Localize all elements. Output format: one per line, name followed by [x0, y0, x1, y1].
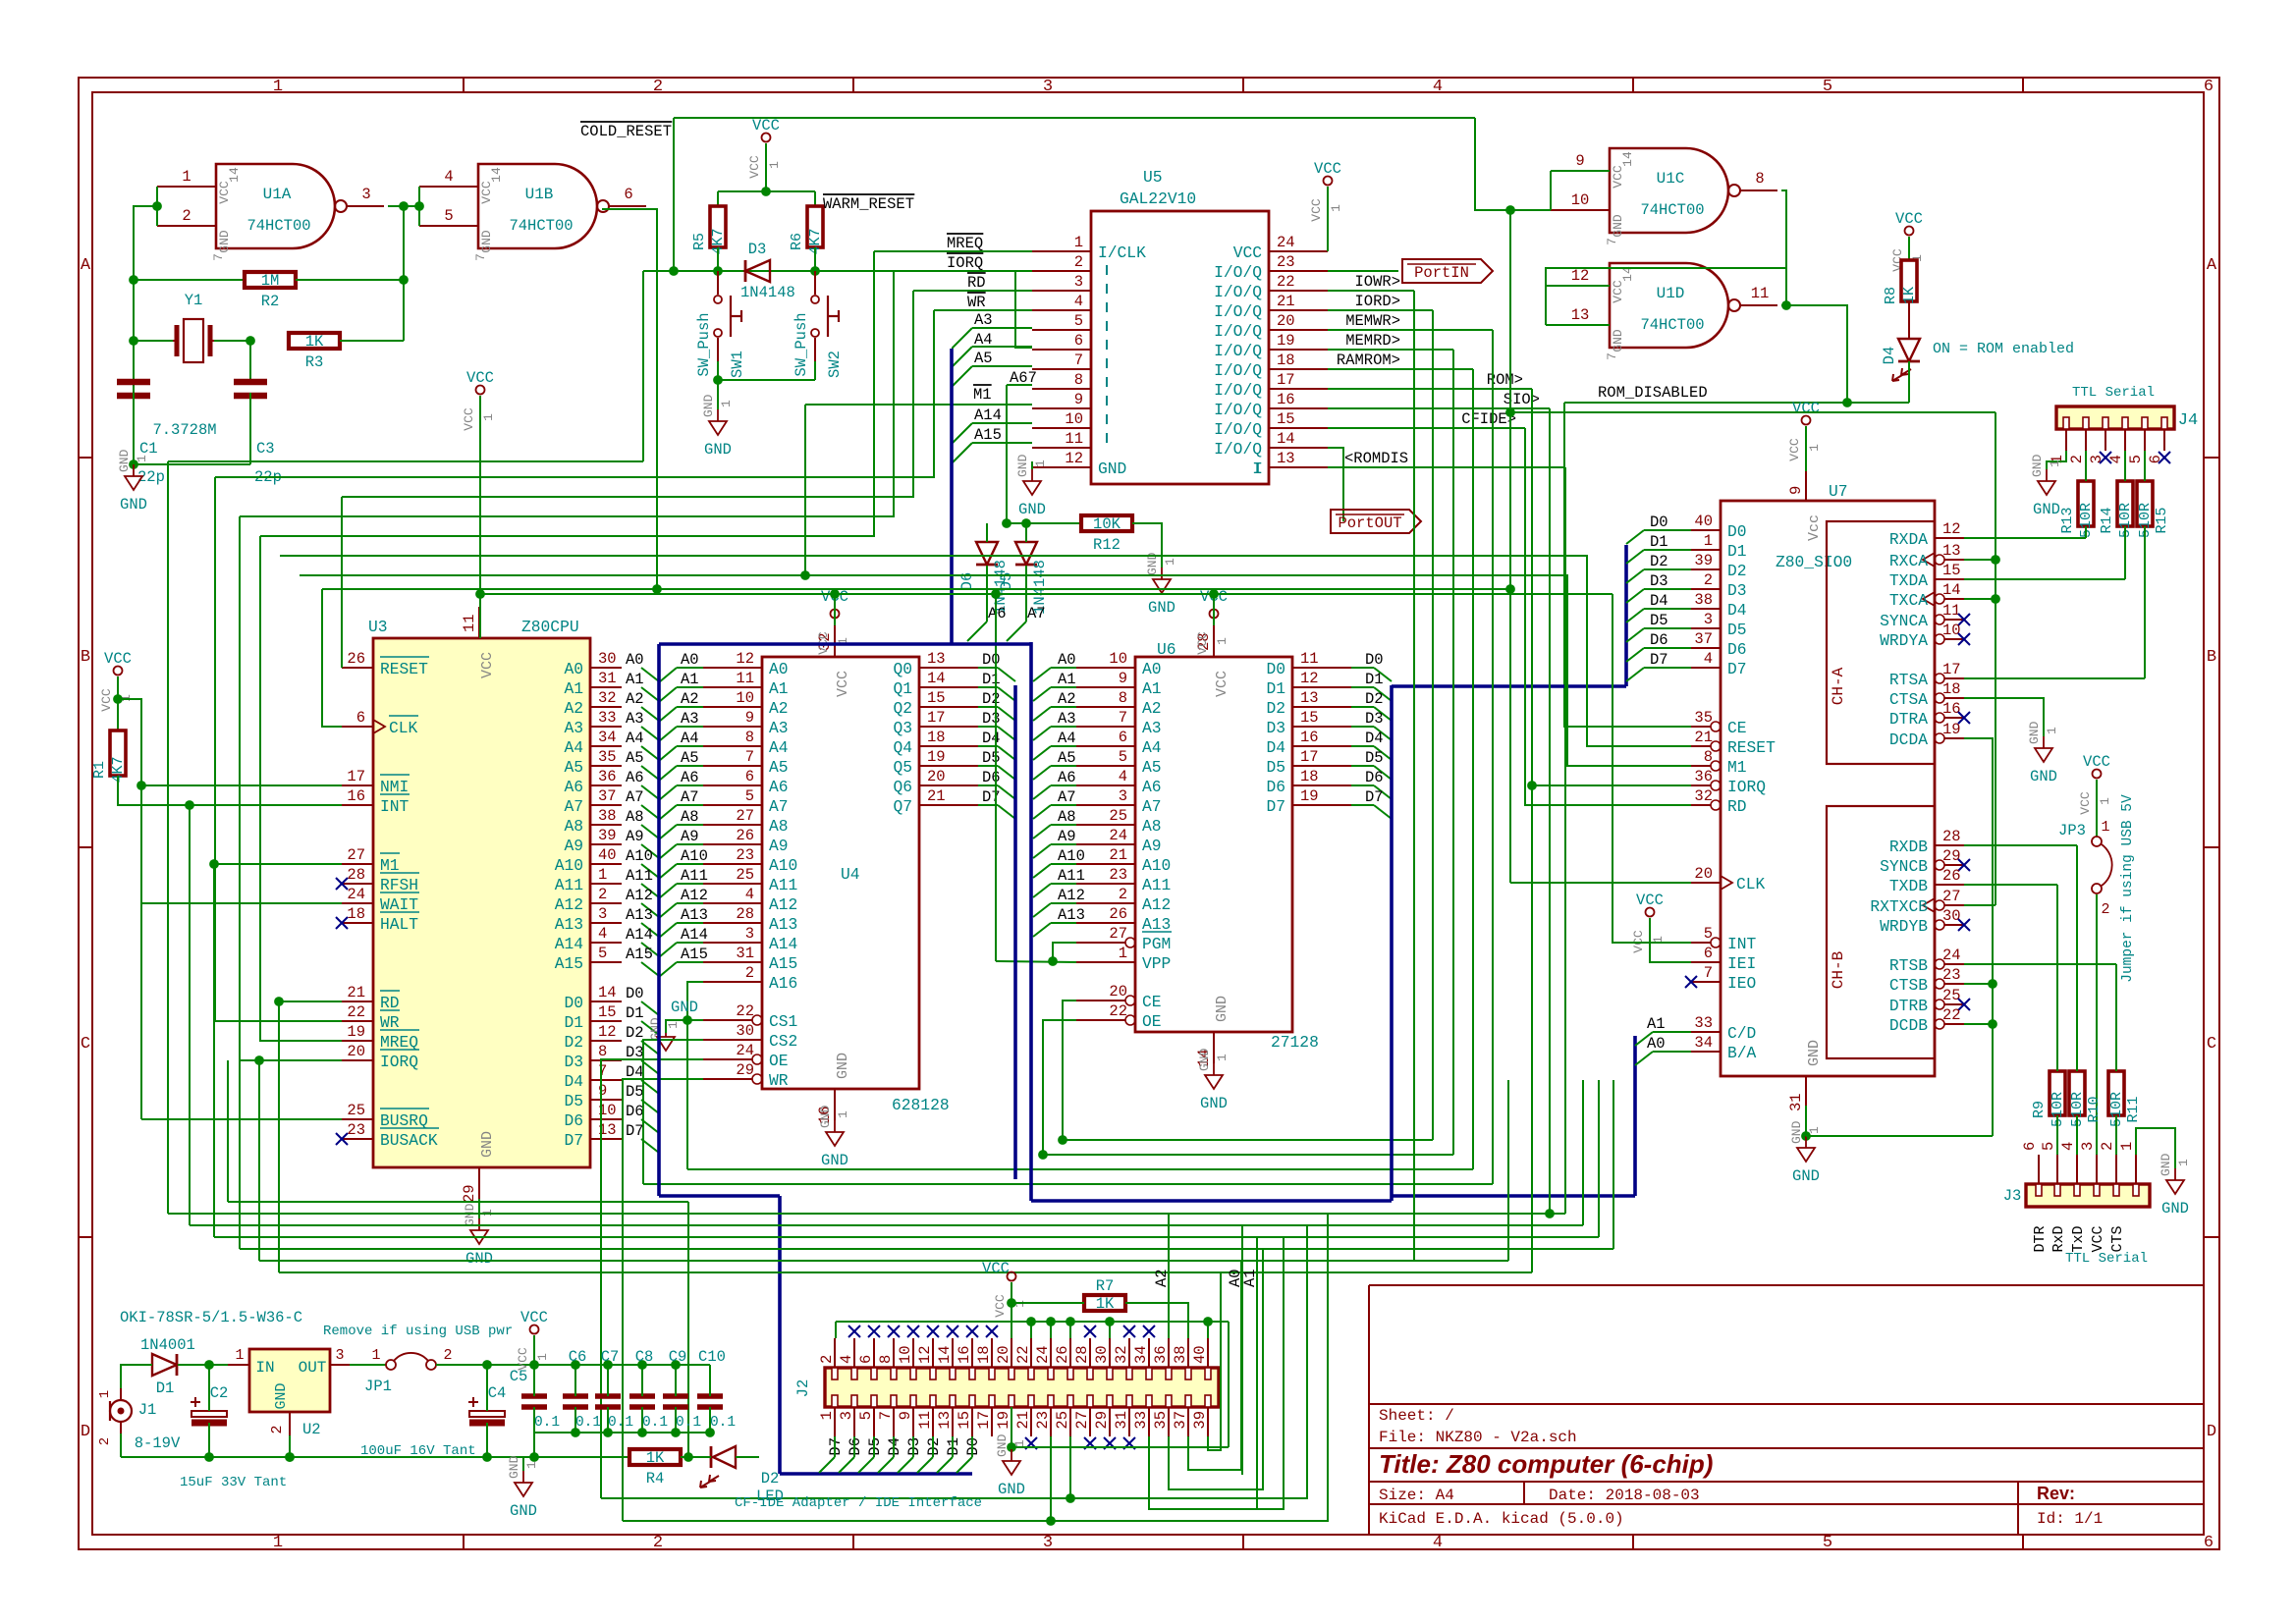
svg-text:U6: U6 [1157, 640, 1176, 659]
svg-text:D2: D2 [564, 1033, 583, 1052]
wire vcc rail reset [718, 190, 815, 192]
net label WARM_RESET [823, 194, 914, 213]
net label A6 at U6 [1058, 769, 1076, 786]
wire U6 CE [1063, 1001, 1076, 1140]
svg-text:A: A [81, 256, 91, 275]
svg-text:C10: C10 [698, 1348, 726, 1366]
net label A2 at U4 [681, 690, 699, 708]
bus entry D7 U6 [1374, 805, 1392, 819]
wire J2 data pin x930 [912, 1436, 914, 1457]
net label D0 at U7 [1650, 514, 1668, 531]
wire VPP [996, 961, 1076, 962]
svg-text:C5: C5 [510, 1368, 528, 1385]
svg-text:IN: IN [255, 1359, 274, 1377]
bus J2 horizontal [780, 1472, 972, 1476]
ground CTSA [2027, 721, 2059, 785]
junction [400, 276, 409, 285]
ground U5 [1015, 454, 1048, 518]
wire RTSA [1964, 677, 2145, 679]
svg-text:M1: M1 [380, 856, 400, 875]
svg-text:21: 21 [1277, 293, 1295, 310]
svg-text:JP1: JP1 [364, 1378, 392, 1395]
svg-text:Jumper if using USB 5V: Jumper if using USB 5V [2120, 794, 2136, 983]
svg-text:D2: D2 [761, 1470, 780, 1488]
global label MEMRD [1345, 332, 1400, 350]
net label A7 diode [1027, 605, 1046, 622]
bus entry A6 U6 [1033, 785, 1051, 799]
svg-text:3: 3 [1043, 78, 1053, 96]
svg-text:3: 3 [2079, 1142, 2097, 1151]
svg-text:6: 6 [857, 1355, 875, 1364]
bus entry A4 [953, 347, 972, 366]
net label D6 at U4 [982, 769, 1001, 786]
IC U6 27128 [1076, 625, 1351, 1067]
svg-text:VCC: VCC [217, 181, 232, 204]
net label A11 at U3 [626, 867, 653, 885]
svg-text:A11: A11 [626, 867, 653, 885]
wire SW2 bottom [814, 361, 816, 380]
net label A3 [974, 311, 993, 329]
svg-text:A7: A7 [681, 788, 699, 806]
bus entry A7 [1007, 622, 1026, 641]
svg-text:A7: A7 [1058, 788, 1076, 806]
wire COLD_RESET horizontal [674, 117, 1475, 119]
svg-text:R13: R13 [2059, 507, 2076, 533]
svg-text:J2: J2 [794, 1380, 812, 1398]
svg-text:R14: R14 [2099, 507, 2115, 533]
svg-text:A1: A1 [1058, 671, 1076, 688]
ground J4 [2030, 454, 2062, 518]
svg-text:3: 3 [361, 186, 370, 203]
wire J2 pin33 run [1149, 1237, 1284, 1509]
svg-text:A4: A4 [1142, 738, 1162, 757]
svg-text:A6: A6 [1058, 769, 1076, 786]
bus entry A15 U4 [659, 962, 677, 977]
bus entry A15 [953, 443, 972, 462]
junction [137, 782, 146, 790]
wire IORQ vertical [258, 1060, 260, 1261]
svg-text:7: 7 [1074, 352, 1083, 369]
svg-text:628128: 628128 [892, 1096, 950, 1114]
wire J2 data pin x890 [873, 1436, 875, 1457]
wire switch gnd rail [718, 379, 815, 381]
svg-text:34: 34 [1132, 1345, 1150, 1364]
wire J2 data pin x870 [853, 1436, 855, 1457]
junction [153, 202, 162, 211]
wire A4 stub [972, 346, 1032, 348]
wire reset rail down [642, 271, 644, 461]
svg-text:D7: D7 [1650, 651, 1668, 669]
svg-text:3: 3 [598, 905, 607, 923]
wire vcc stem reset [765, 143, 767, 191]
wire CS1 down [686, 1020, 688, 1169]
svg-text:A11: A11 [555, 876, 583, 894]
svg-text:25: 25 [736, 866, 754, 884]
wire RAMROM vertical [1472, 369, 1474, 1169]
net label A7 at U3 [626, 788, 644, 806]
svg-text:2: 2 [653, 78, 663, 96]
no-connect J2 top x1170 [1143, 1325, 1155, 1337]
wire bundle y1260 [214, 1236, 1599, 1238]
net label D6 at J2 [847, 1437, 864, 1456]
wire A10 U6 [1051, 863, 1076, 865]
svg-text:16: 16 [1277, 391, 1295, 408]
svg-text:1: 1 [719, 400, 734, 407]
bus entry A6 U4 [659, 785, 677, 800]
svg-text:A7: A7 [564, 797, 583, 816]
svg-text:GND: GND [117, 449, 132, 472]
svg-text:1: 1 [235, 1347, 244, 1364]
wire A1 vertical [1256, 1237, 1258, 1510]
svg-text:D3: D3 [1650, 572, 1668, 590]
svg-text:OUT: OUT [299, 1359, 327, 1377]
svg-text:IOWR>: IOWR> [1354, 273, 1400, 291]
net label D0 at J2 [964, 1437, 982, 1456]
svg-text:CF-IDE Adapter / IDE Interface: CF-IDE Adapter / IDE Interface [735, 1495, 982, 1511]
svg-text:Z80_SIO0: Z80_SIO0 [1776, 553, 1852, 571]
svg-text:D4: D4 [1266, 738, 1285, 757]
svg-text:I/O/Q: I/O/Q [1214, 420, 1262, 439]
svg-text:13: 13 [1571, 306, 1590, 324]
net label A8 at U6 [1058, 808, 1076, 826]
wire vcc power stem [533, 1335, 535, 1365]
wire IOWR [1328, 290, 1414, 292]
net label D7 at U3 [626, 1122, 644, 1140]
svg-text:1K: 1K [646, 1449, 665, 1467]
svg-text:VCC: VCC [1787, 438, 1802, 461]
capacitor C2 [191, 1384, 228, 1423]
global label RAMROM [1337, 352, 1400, 369]
svg-text:19: 19 [1942, 721, 1961, 738]
connector J3 [2021, 1142, 2150, 1207]
wire CS1 gnd [666, 1020, 687, 1033]
wire A11 U6 [1051, 883, 1076, 885]
svg-text:1: 1 [273, 78, 283, 96]
wire A67 stub [1007, 384, 1032, 386]
svg-text:1: 1 [1012, 1439, 1027, 1447]
svg-text:32: 32 [598, 689, 617, 707]
svg-text:1: 1 [1215, 1054, 1230, 1061]
svg-text:A13: A13 [626, 906, 653, 924]
svg-text:A1: A1 [1647, 1015, 1666, 1033]
net label D1 at U3 [626, 1004, 644, 1022]
svg-text:A11: A11 [681, 867, 708, 885]
svg-text:GND: GND [465, 1250, 493, 1268]
wire serial clock vertical long [1509, 210, 1511, 883]
junction [1843, 399, 1852, 407]
svg-text:39: 39 [1191, 1411, 1209, 1430]
svg-text:VCC: VCC [752, 117, 780, 135]
wire C2 top [208, 1365, 210, 1411]
wire RTSB to R11 [2115, 964, 2117, 1071]
wire U1A out to U1B [388, 205, 419, 207]
svg-text:1M: 1M [261, 272, 280, 290]
svg-text:GND: GND [835, 1053, 851, 1079]
svg-text:D3: D3 [1727, 581, 1747, 600]
VCC symbol U7 IEI [1631, 892, 1666, 953]
svg-text:5: 5 [1704, 925, 1713, 943]
net label A9 at U6 [1058, 828, 1076, 845]
svg-text:VCC: VCC [1895, 210, 1923, 228]
bus entry A15 U3 [641, 962, 659, 976]
VCC symbol power [516, 1309, 550, 1371]
wire INT vertical [189, 805, 191, 1225]
svg-text:D5: D5 [564, 1092, 583, 1110]
wire J2 data pin x970 [952, 1436, 954, 1457]
push button SW2 [793, 271, 844, 378]
bus entry A1 U3 [641, 687, 659, 701]
bus entry A3 U6 [1033, 727, 1051, 740]
svg-text:GND: GND [1098, 460, 1126, 478]
wire x244 down [239, 516, 241, 1249]
svg-text:GND: GND [1018, 501, 1046, 518]
svg-text:20: 20 [927, 768, 946, 785]
nand gate U1B [419, 164, 646, 261]
svg-text:3: 3 [1704, 611, 1713, 628]
bus entry A11 U4 [659, 884, 677, 898]
svg-text:GND: GND [1792, 1167, 1820, 1185]
svg-text:5: 5 [2127, 455, 2145, 463]
wire J2 top pin x1050 [1030, 1322, 1032, 1338]
svg-text:CLK: CLK [1736, 875, 1766, 893]
wire D0 U6 [1351, 667, 1374, 669]
bus entry D2 U4 [998, 707, 1015, 721]
wire vcc to R8 [1908, 237, 1910, 260]
svg-text:17: 17 [1277, 371, 1295, 389]
svg-text:C9: C9 [669, 1348, 687, 1366]
wire J2 pin23 run [1051, 1214, 1328, 1521]
bus entry A0 U7 [1635, 1052, 1653, 1065]
junction [1506, 206, 1515, 215]
svg-text:A6: A6 [564, 778, 583, 796]
svg-text:36: 36 [1152, 1345, 1170, 1364]
wire J2 pin19 [1011, 1407, 1012, 1447]
svg-text:GND: GND [1611, 214, 1625, 238]
svg-text:A7: A7 [1142, 797, 1162, 816]
junction mid yA [1059, 1136, 1067, 1145]
svg-text:D0: D0 [1650, 514, 1668, 531]
bus entry A8 U4 [659, 825, 677, 839]
svg-text:SW_Push: SW_Push [793, 312, 810, 376]
jumper JP3 [2058, 780, 2112, 918]
junction [1008, 1299, 1016, 1308]
bus entry D6 J2 [839, 1457, 854, 1473]
svg-text:U1C: U1C [1657, 170, 1685, 188]
wire ROMDIS [1328, 466, 1565, 468]
svg-text:1: 1 [524, 1461, 539, 1469]
svg-text:GND: GND [1806, 1040, 1823, 1066]
wire J2 pin23 stub [1050, 1436, 1052, 1521]
svg-text:B/A: B/A [1727, 1044, 1757, 1062]
wire to U7 IORQ [1532, 784, 1691, 786]
wire J2 pin25 run [1070, 1225, 1307, 1498]
bus A0A1 U7 [1633, 1036, 1637, 1196]
wire U1C out down [1781, 190, 1786, 305]
svg-text:IEI: IEI [1727, 954, 1756, 973]
junction C10 gnd [706, 1429, 715, 1437]
svg-text:A14: A14 [626, 926, 653, 944]
svg-text:I/O/Q: I/O/Q [1214, 302, 1262, 321]
svg-text:35: 35 [1694, 709, 1713, 727]
wire COLD_RESET down [673, 118, 675, 271]
svg-text:D3: D3 [564, 1053, 583, 1071]
svg-text:I/O/Q: I/O/Q [1214, 263, 1262, 282]
svg-text:25: 25 [1054, 1411, 1071, 1430]
svg-text:22: 22 [347, 1003, 365, 1021]
wire D2 right stub [736, 1456, 759, 1458]
svg-text:Sheet: /: Sheet: / [1379, 1407, 1454, 1425]
svg-text:1: 1 [2098, 797, 2112, 805]
junction [653, 585, 662, 594]
bus entry A3 U3 [641, 727, 659, 740]
junction [1992, 595, 2000, 604]
wire to PortIN [1328, 270, 1398, 272]
junction [1049, 957, 1058, 966]
wire R15 bottom [2144, 526, 2146, 678]
svg-text:M1: M1 [973, 386, 992, 404]
svg-text:D6: D6 [1650, 631, 1668, 649]
svg-text:8: 8 [598, 1043, 607, 1060]
svg-text:31: 31 [598, 670, 617, 687]
svg-text:JP3: JP3 [2058, 822, 2086, 839]
bus entry A5 U3 [641, 766, 659, 780]
net label A12 at U4 [681, 887, 708, 904]
svg-text:Q3: Q3 [893, 719, 912, 737]
svg-text:DCDB: DCDB [1889, 1016, 1928, 1035]
svg-text:GND: GND [120, 496, 147, 514]
wire A16 CS1 tie [687, 982, 703, 1020]
svg-text:7: 7 [211, 253, 226, 261]
svg-text:1: 1 [1807, 1126, 1822, 1134]
wire D2 U7 [1644, 568, 1691, 570]
wire osc left vertical [134, 206, 157, 464]
ground osc [117, 449, 149, 514]
net label D7 at U6 [1365, 788, 1384, 806]
junction J2 x1070 [1047, 1318, 1056, 1326]
svg-text:13: 13 [936, 1411, 954, 1430]
wire U2 gnd [289, 1435, 291, 1457]
svg-text:21: 21 [1694, 729, 1713, 746]
svg-text:A5: A5 [769, 758, 789, 777]
LED D4 [1881, 339, 1920, 381]
svg-text:11: 11 [1942, 602, 1961, 620]
net label A5 at U3 [626, 749, 644, 767]
bus entry A9 U6 [1033, 844, 1051, 858]
svg-text:2: 2 [598, 886, 607, 903]
wire D5 U7 [1644, 627, 1691, 629]
svg-text:GND: GND [821, 1152, 848, 1169]
svg-text:9: 9 [1575, 152, 1584, 170]
svg-text:GND: GND [2033, 501, 2060, 518]
svg-text:A1: A1 [769, 679, 789, 698]
junction [400, 202, 409, 211]
junction [1546, 1210, 1555, 1218]
svg-text:D1: D1 [1650, 533, 1668, 551]
VCC symbol U5 [1309, 160, 1343, 222]
svg-text:WRDYB: WRDYB [1880, 917, 1928, 936]
bus entry D6 U4 [998, 785, 1015, 799]
svg-text:1: 1 [1074, 234, 1083, 251]
resistor R12 [1081, 515, 1132, 554]
svg-text:WRDYA: WRDYA [1880, 631, 1928, 650]
svg-text:7: 7 [877, 1411, 895, 1420]
wire A6 U6 [1051, 784, 1076, 786]
wire A0 U4 [677, 667, 703, 669]
net label A10 at U3 [626, 847, 653, 865]
svg-text:Z80CPU: Z80CPU [521, 618, 579, 636]
net label A4 at U3 [626, 730, 644, 747]
svg-text:GND: GND [2027, 721, 2042, 744]
bus entry D5 U3 [641, 1100, 659, 1113]
svg-text:9: 9 [598, 1082, 607, 1100]
net label D1 at U7 [1650, 533, 1668, 551]
svg-text:R9: R9 [2031, 1101, 2048, 1118]
wire Q3 U4 [978, 726, 998, 728]
wire to Y1 [134, 340, 173, 342]
svg-text:VPP: VPP [1142, 954, 1171, 973]
net label D1 at U6 [1365, 671, 1384, 688]
bus entry D2 J2 [917, 1457, 933, 1473]
svg-text:7: 7 [745, 748, 754, 766]
svg-text:17: 17 [1942, 661, 1961, 678]
net label COLD_RESET [580, 122, 672, 140]
svg-text:D6: D6 [626, 1103, 644, 1120]
svg-text:R1: R1 [91, 761, 108, 779]
svg-text:VCC: VCC [2090, 1225, 2106, 1252]
svg-text:1K: 1K [1096, 1295, 1115, 1313]
bus entry D4 U4 [998, 746, 1015, 760]
ground U4 CS1 [648, 999, 698, 1051]
svg-text:22: 22 [1109, 1002, 1127, 1020]
net label A3 at U3 [626, 710, 644, 728]
wire SIO vertical [1549, 408, 1551, 1214]
net label D6 at U3 [626, 1103, 644, 1120]
svg-text:A9: A9 [1058, 828, 1076, 845]
junction [1047, 1517, 1056, 1526]
svg-text:GAL22V10: GAL22V10 [1120, 189, 1196, 208]
capacitor C8 [629, 1348, 668, 1433]
bus entry A11 U3 [641, 884, 659, 897]
wire J1 to gnd rail [120, 1434, 122, 1457]
no-connect J2 top x950 [927, 1325, 939, 1337]
net label D5 at U3 [626, 1083, 644, 1101]
svg-text:PortIN: PortIN [1414, 264, 1469, 282]
svg-text:5: 5 [444, 207, 453, 225]
svg-text:U3: U3 [368, 618, 388, 636]
svg-text:D0: D0 [1365, 651, 1384, 669]
bus entry D2 U7 [1626, 569, 1644, 583]
wire ROM vertical [1531, 389, 1533, 1272]
svg-text:11: 11 [1300, 650, 1319, 668]
wire A9 U4 [677, 843, 703, 845]
wire A7 U4 [677, 804, 703, 806]
wire main gnd rail [121, 1456, 629, 1458]
svg-text:18: 18 [1300, 768, 1319, 785]
svg-text:9: 9 [1119, 670, 1127, 687]
junction [604, 1361, 613, 1370]
svg-text:3: 3 [838, 1411, 855, 1420]
svg-text:A15: A15 [769, 954, 797, 973]
net label A11 at U6 [1058, 867, 1085, 885]
bus entry D6 U6 [1374, 785, 1392, 799]
wire VCC rail [480, 593, 1613, 595]
svg-text:30: 30 [598, 650, 617, 668]
net label A1 at J2 [1241, 1269, 1259, 1287]
svg-text:A12: A12 [681, 887, 708, 904]
svg-text:D6: D6 [1266, 778, 1285, 796]
svg-text:GND: GND [510, 1502, 537, 1520]
junction [1782, 301, 1791, 310]
